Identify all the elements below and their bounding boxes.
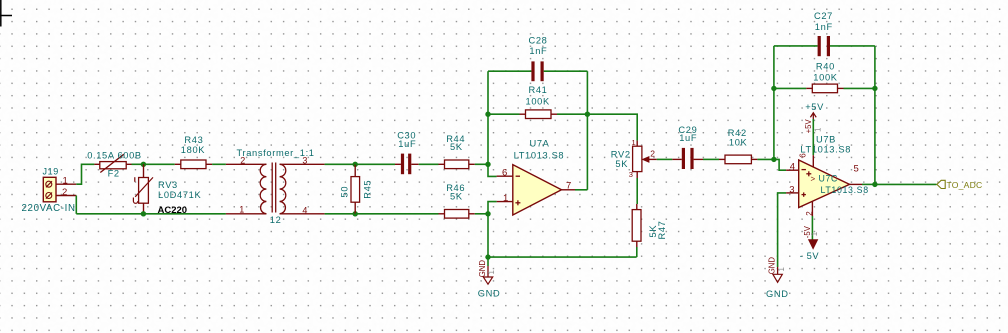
fuse F2 [87,150,142,178]
wire +input node down to GND junction [487,214,489,257]
svg-text:- 5V: - 5V [800,251,820,261]
svg-text:4: 4 [790,161,795,172]
node junction fuse/R43/RV3 [141,162,146,167]
node B junction [771,157,776,162]
svg-text:GND: GND [767,257,776,275]
svg-text:2: 2 [62,187,67,198]
node junction bottom rail / +input [485,211,490,216]
capacitor C29 [672,125,703,169]
svg-text:50: 50 [340,186,350,198]
wire pin3 to GND2 vertical [778,193,787,267]
svg-text:7: 7 [566,181,571,192]
transformer T1 Transformer_1:1 [226,148,325,225]
svg-text:1: 1 [810,232,819,236]
svg-text:1nF: 1nF [529,46,547,56]
svg-text:R45: R45 [363,180,373,199]
wire R44 to node A [475,163,488,165]
power -5V symbol [800,201,820,261]
node junction output [872,182,877,187]
svg-text:220VAC-IN: 220VAC-IN [22,203,76,214]
svg-text:1: 1 [813,128,822,132]
wire pin2 to bottom rail [75,196,77,214]
node junction R40 right [872,86,877,91]
resistor R44 [439,134,475,169]
svg-text:GND: GND [766,289,789,299]
svg-text:>: > [811,175,816,184]
resistor R40 [774,62,875,93]
svg-text:5: 5 [854,163,859,174]
power +5V symbol [804,102,824,167]
wire R42 to node B [757,158,774,160]
ground GND1 [478,257,501,298]
node junction R45 top [353,162,358,167]
capacitor C27 [774,11,875,56]
resistor R47 [632,204,667,247]
svg-text:1: 1 [503,193,508,204]
wire U7B output to junction [862,183,875,185]
svg-text:0.15A 600B: 0.15A 600B [87,150,142,160]
wire R46 to +input node [475,213,488,215]
svg-text:L0D471K: L0D471K [158,190,201,200]
svg-text:J19: J19 [43,167,59,177]
wire RV3 to bottom rail [143,212,145,214]
resistor R45 [340,164,373,214]
svg-text:2: 2 [240,156,245,166]
resistor R41 [488,85,587,119]
wire bottom rail to R46 [355,213,438,215]
svg-text:U7A: U7A [530,139,550,149]
svg-text:+5V: +5V [805,102,824,112]
wire feedback right vertical [586,71,588,190]
svg-text:2: 2 [650,149,655,159]
wire R43 to transformer [212,163,226,165]
wire transformer pin3 to junction [325,163,356,165]
svg-text:TO_ADC: TO_ADC [947,180,983,190]
wire C29 to R42 [703,158,719,160]
svg-text:R47: R47 [657,220,667,239]
resistor R46 [439,183,475,218]
wire R47 bottom to rail [636,247,638,257]
wire GND junction to R47 bottom [488,256,637,258]
capacitor C28 [488,36,587,82]
cursor crosshair [0,0,12,27]
svg-text:100K: 100K [526,96,550,106]
svg-text:1: 1 [487,270,496,274]
svg-text:12: 12 [270,215,282,225]
svg-text:1: 1 [63,176,68,187]
wire U7A +input to bottom node [488,202,497,214]
varistor RV3 [133,164,201,211]
svg-text:1: 1 [239,205,244,215]
svg-text:R40: R40 [816,62,835,72]
wire junction to C30 [355,163,395,165]
svg-text:1uF: 1uF [398,139,416,149]
svg-text:5K: 5K [615,159,628,169]
svg-text:6: 6 [502,167,507,178]
wire node A vertical (feedback left leg) [488,71,497,176]
svg-text:R41: R41 [529,85,548,95]
wire bottom rail left [76,213,226,215]
svg-text:AC220: AC220 [158,205,188,216]
wire U7A output to feedback right leg [575,189,587,191]
svg-text:+5V: +5V [804,119,813,134]
svg-text:U7C: U7C [819,174,839,184]
op-amp U7A [497,139,575,215]
wire node B jog to pin4 [774,159,786,170]
node junction R41 right [585,112,590,117]
svg-text:R43: R43 [184,135,203,145]
svg-text:10K: 10K [729,138,748,148]
wire C30 to R44 [419,163,439,165]
resistor R42 [719,128,757,164]
svg-text:RV2: RV2 [611,150,631,160]
svg-text:1nF: 1nF [815,22,833,32]
svg-text:GND: GND [478,288,501,298]
svg-text:100K: 100K [813,72,837,82]
capacitor C30 [395,130,419,174]
svg-text:LT1013.S8: LT1013.S8 [800,145,851,155]
wire fuse to junction [132,163,144,165]
svg-text:5K: 5K [450,192,463,202]
svg-text:4: 4 [302,205,307,215]
svg-text:C28: C28 [529,36,548,46]
svg-text:1uF: 1uF [679,133,697,143]
wire output to label [875,183,937,185]
op-amp U7B [786,135,869,216]
svg-text:U7B: U7B [816,135,836,145]
svg-text:LT1013.S8: LT1013.S8 [821,185,869,195]
connector J19 [43,167,77,202]
resistor R43 [175,135,212,169]
node junction R40 left [771,86,776,91]
svg-text:RV3: RV3 [158,180,178,190]
potentiometer RV2 [611,138,657,179]
wire RV2 bottom to R47 [636,178,638,204]
svg-text:3: 3 [629,170,633,179]
wire transformer pin4 to junction [325,213,356,215]
hierarchical label TO_ADC [937,180,983,190]
ground GND2 [766,257,789,299]
wire RV2 wiper to C29 [657,158,673,160]
svg-text:LT1013.S8: LT1013.S8 [514,150,565,160]
node junction RV3 bottom [141,211,146,216]
wire junction to R43 [143,163,174,165]
svg-text:3: 3 [789,184,794,195]
svg-text:1: 1 [777,267,786,271]
svg-text:GND: GND [478,260,487,278]
wire node B feedback vertical left [773,46,775,159]
svg-text:C27: C27 [814,11,833,21]
wire junction to RV2 top [587,114,637,140]
wire pin1 to fuse [76,164,94,184]
svg-text:180K: 180K [181,145,205,155]
wire feedback vertical right [874,46,876,185]
node A junction [485,162,490,167]
node junction R41 left [485,112,490,117]
svg-text:3: 3 [302,155,307,165]
node junction GND1 [485,254,490,259]
svg-text:5K: 5K [450,142,463,152]
node junction R45 bottom [353,211,358,216]
svg-text:F2: F2 [108,168,120,178]
